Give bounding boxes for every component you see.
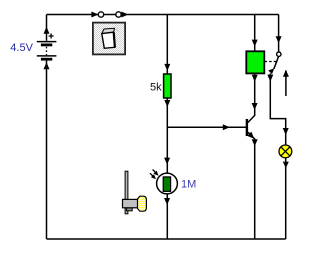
svg-text:5k: 5k xyxy=(150,81,162,93)
svg-text:1M: 1M xyxy=(181,179,196,191)
svg-text:4.5V: 4.5V xyxy=(10,42,33,54)
